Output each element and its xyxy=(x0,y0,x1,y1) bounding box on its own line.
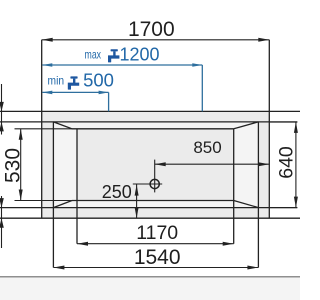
svg-text:1700: 1700 xyxy=(128,18,175,41)
arrow 1700 right xyxy=(258,38,269,42)
arrow 530 down xyxy=(19,190,23,201)
dimension 530 line xyxy=(20,129,22,201)
blue dimension min500 line xyxy=(42,91,108,93)
dimension 1170 line xyxy=(77,243,234,245)
svg-text:250: 250 xyxy=(102,182,132,202)
dimension 640 line xyxy=(295,122,297,208)
arrow 640 down xyxy=(294,197,298,208)
blue arrow 500 left xyxy=(42,91,52,95)
arrow 1700 left xyxy=(42,38,53,42)
basin floor right edge xyxy=(233,129,235,244)
basin floor bottom edge xyxy=(72,200,234,202)
arrow 850 right xyxy=(258,162,269,166)
rim right edge xyxy=(257,122,259,268)
outer bottom edge full width xyxy=(0,217,300,219)
basin floor top edge xyxy=(72,128,234,130)
blue arrow 1200 left xyxy=(42,63,52,67)
dimension 1700 line xyxy=(42,39,270,41)
dimension 530 extension top xyxy=(15,128,73,130)
dimension 640 extension bottom xyxy=(269,207,297,209)
faucet icon max xyxy=(108,49,119,62)
tub right outer edge xyxy=(268,40,270,218)
svg-text:850: 850 xyxy=(193,138,221,157)
chamfer bottom-right xyxy=(234,201,259,208)
arrow 1170 right xyxy=(223,242,234,246)
arrow 1540 left xyxy=(53,266,64,270)
tub floor fill xyxy=(77,129,234,201)
blue arrow 1200 right xyxy=(192,63,202,67)
arrow 850 left xyxy=(155,162,166,166)
dimension 850 line xyxy=(155,163,270,165)
blue 500 drop xyxy=(108,92,110,111)
svg-text:640: 640 xyxy=(275,146,297,179)
bottom separator line xyxy=(0,276,300,278)
chamfer top-right xyxy=(234,122,259,129)
svg-text:1170: 1170 xyxy=(136,222,178,244)
dimension 850 drop to drain xyxy=(154,160,156,193)
rim bottom edge full width xyxy=(0,207,297,209)
arrow 530 up xyxy=(19,129,23,140)
dimension 530 extension bottom xyxy=(15,200,73,202)
dimension 1540 line xyxy=(53,267,258,269)
dimension 250 line xyxy=(136,184,138,218)
arrow 1540 right xyxy=(247,266,258,270)
arrow 640 up xyxy=(294,122,298,133)
crop arrow bottom-up xyxy=(0,218,4,228)
crop arrow top-down xyxy=(0,102,4,112)
svg-text:530: 530 xyxy=(2,148,25,183)
svg-text:1200: 1200 xyxy=(119,45,159,65)
svg-text:500: 500 xyxy=(83,70,114,91)
svg-text:max: max xyxy=(85,48,102,62)
drain symbol xyxy=(150,179,159,188)
chamfer top-left xyxy=(53,122,72,129)
faucet icon min xyxy=(68,76,79,89)
left edge crop dim bottom xyxy=(1,196,3,248)
wall line / outer top edge full width xyxy=(0,110,300,112)
tub rim (basin opening) fill xyxy=(53,122,258,208)
blue arrow 500 right xyxy=(99,91,109,95)
rim top edge full width xyxy=(0,121,297,123)
chamfer bottom-left xyxy=(53,201,72,208)
tub outer deck fill xyxy=(42,111,270,218)
arrow 250 up xyxy=(135,185,139,196)
basin floor left edge xyxy=(76,129,78,244)
bottom gray strip xyxy=(0,278,300,300)
drain cross horizontal xyxy=(133,183,162,185)
svg-text:min: min xyxy=(48,74,65,88)
tub left outer edge xyxy=(41,40,43,218)
dimension 640 extension top xyxy=(269,121,297,123)
crop arrow top-up xyxy=(0,122,4,131)
left edge crop dim top xyxy=(1,84,3,135)
arrow 1170 left xyxy=(77,242,88,246)
svg-text:1540: 1540 xyxy=(134,246,181,269)
rim left edge xyxy=(52,122,54,268)
crop arrow bottom-down xyxy=(0,198,4,208)
blue dimension max1200 line xyxy=(42,64,202,66)
blue 1200 drop xyxy=(201,65,203,111)
arrow 250 down xyxy=(135,207,139,218)
